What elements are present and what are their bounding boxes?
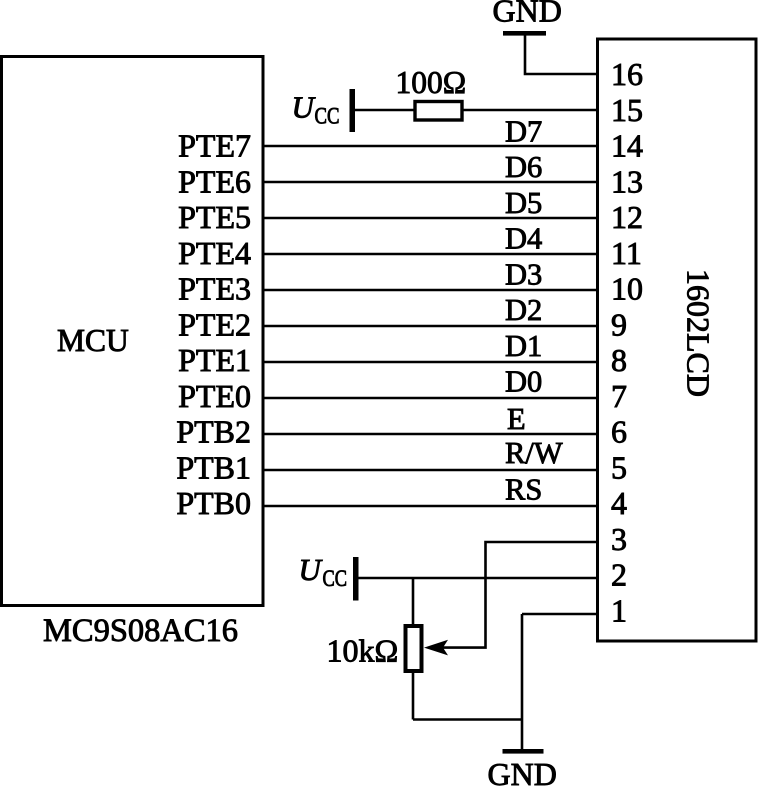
svg-text:D6: D6 (505, 150, 542, 184)
svg-text:PTE6: PTE6 (178, 163, 251, 199)
svg-text:RS: RS (505, 473, 542, 507)
svg-text:14: 14 (611, 128, 643, 164)
svg-text:PTE0: PTE0 (178, 378, 251, 414)
svg-text:CC: CC (323, 566, 348, 591)
svg-text:11: 11 (611, 235, 642, 271)
svg-text:8: 8 (611, 342, 627, 378)
svg-text:E: E (507, 402, 526, 436)
svg-text:10: 10 (611, 271, 643, 307)
svg-text:PTB2: PTB2 (176, 414, 251, 450)
svg-text:R/W: R/W (505, 436, 563, 470)
svg-text:GND: GND (493, 0, 562, 29)
svg-text:15: 15 (611, 92, 643, 128)
svg-text:D0: D0 (505, 365, 542, 399)
svg-text:1602LCD: 1602LCD (681, 269, 717, 397)
svg-text:1: 1 (611, 592, 627, 628)
svg-text:GND: GND (488, 756, 557, 786)
svg-text:MCU: MCU (57, 323, 129, 358)
svg-text:PTE1: PTE1 (178, 342, 251, 378)
svg-text:D5: D5 (505, 186, 542, 220)
svg-text:12: 12 (611, 199, 643, 235)
svg-text:U: U (299, 552, 324, 587)
svg-text:D7: D7 (505, 115, 542, 149)
svg-text:D2: D2 (505, 293, 542, 327)
svg-text:CC: CC (315, 104, 340, 129)
svg-text:16: 16 (611, 56, 643, 92)
svg-text:7: 7 (611, 378, 627, 414)
svg-text:PTB1: PTB1 (176, 449, 251, 485)
svg-text:D3: D3 (505, 257, 542, 291)
svg-text:D1: D1 (505, 329, 542, 363)
svg-text:3: 3 (611, 521, 627, 557)
svg-text:5: 5 (611, 449, 627, 485)
svg-text:10kΩ: 10kΩ (327, 633, 399, 669)
svg-text:6: 6 (611, 414, 627, 450)
svg-text:PTE5: PTE5 (178, 199, 251, 235)
svg-text:MC9S08AC16: MC9S08AC16 (43, 613, 238, 649)
svg-text:13: 13 (611, 163, 643, 199)
svg-text:2: 2 (611, 557, 627, 593)
svg-text:9: 9 (611, 306, 627, 342)
svg-text:U: U (292, 90, 317, 125)
svg-text:D4: D4 (505, 222, 542, 256)
svg-text:100Ω: 100Ω (396, 65, 467, 100)
svg-text:4: 4 (611, 485, 627, 521)
svg-text:PTE7: PTE7 (178, 128, 251, 164)
svg-text:PTE3: PTE3 (178, 271, 251, 307)
svg-text:PTE2: PTE2 (178, 306, 251, 342)
svg-text:PTE4: PTE4 (178, 235, 251, 271)
svg-text:PTB0: PTB0 (176, 485, 251, 521)
